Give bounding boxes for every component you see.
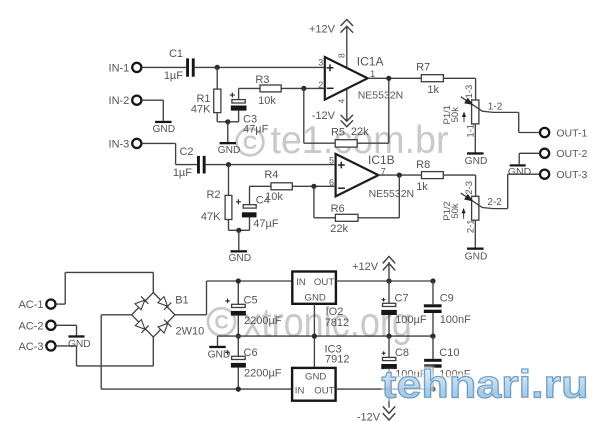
svg-text:IN: IN: [296, 277, 306, 288]
svg-text:C1: C1: [169, 48, 183, 60]
svg-text:-12V: -12V: [312, 110, 336, 122]
svg-text:GND: GND: [508, 166, 532, 178]
svg-text:100nF: 100nF: [440, 314, 471, 326]
svg-text:R6: R6: [331, 203, 345, 215]
svg-text:1-3: 1-3: [464, 85, 475, 99]
svg-text:2-2: 2-2: [487, 197, 502, 208]
svg-text:GND: GND: [152, 124, 175, 135]
svg-text:2W10: 2W10: [176, 326, 205, 338]
svg-text:IN-2: IN-2: [109, 95, 130, 107]
svg-text:AC-1: AC-1: [18, 299, 43, 311]
svg-text:GND: GND: [68, 339, 91, 350]
svg-text:7912: 7912: [325, 353, 349, 365]
svg-text:47K: 47K: [201, 211, 221, 223]
svg-text:7812: 7812: [325, 317, 349, 329]
svg-text:C10: C10: [439, 347, 459, 359]
svg-text:50k: 50k: [450, 203, 461, 219]
svg-text:GND: GND: [465, 252, 488, 263]
svg-text:50k: 50k: [450, 107, 461, 123]
svg-text:1-2: 1-2: [488, 101, 503, 112]
svg-text:2200µF: 2200µF: [244, 315, 282, 327]
svg-text:1k: 1k: [427, 84, 439, 96]
svg-text:22k: 22k: [351, 126, 369, 138]
svg-text:47µF: 47µF: [243, 123, 269, 135]
svg-text:+12V: +12V: [309, 24, 336, 36]
svg-text:R5: R5: [331, 127, 345, 139]
svg-text:NE5532N: NE5532N: [358, 90, 404, 102]
svg-text:4: 4: [336, 99, 346, 104]
svg-text:IC1A: IC1A: [357, 55, 384, 69]
svg-text:47µF: 47µF: [253, 218, 279, 230]
svg-text:2-3: 2-3: [464, 181, 475, 195]
svg-text:OUT-1: OUT-1: [556, 127, 587, 139]
svg-text:R8: R8: [416, 159, 430, 171]
svg-text:10k: 10k: [265, 191, 283, 203]
svg-text:-12V: -12V: [357, 411, 381, 422]
svg-text:OUT-3: OUT-3: [556, 169, 587, 181]
svg-text:GND: GND: [218, 145, 241, 156]
svg-text:R7: R7: [416, 62, 430, 74]
svg-text:C8: C8: [395, 347, 409, 359]
svg-text:C6: C6: [244, 347, 258, 359]
svg-text:10k: 10k: [258, 95, 276, 107]
svg-text:100µF: 100µF: [395, 314, 427, 326]
svg-text:R4: R4: [264, 169, 278, 181]
svg-text:GND: GND: [305, 292, 326, 303]
svg-text:1µF: 1µF: [173, 167, 192, 179]
svg-text:C7: C7: [395, 293, 409, 305]
svg-text:2200µF: 2200µF: [244, 368, 282, 380]
svg-text:NE5532N: NE5532N: [369, 188, 415, 200]
svg-text:1k: 1k: [416, 181, 428, 193]
svg-text:C2: C2: [179, 146, 193, 158]
svg-text:47K: 47K: [191, 103, 211, 115]
svg-text:5: 5: [329, 156, 334, 166]
svg-text:GND: GND: [228, 253, 251, 264]
svg-text:1µF: 1µF: [164, 70, 183, 82]
svg-text:R2: R2: [206, 189, 220, 201]
svg-text:IN: IN: [295, 386, 305, 397]
svg-text:8: 8: [336, 53, 346, 58]
svg-text:OUT: OUT: [314, 277, 334, 288]
svg-text:B1: B1: [175, 294, 188, 306]
svg-text:2: 2: [318, 80, 323, 90]
svg-text:IN-3: IN-3: [109, 138, 130, 150]
svg-text:IC1B: IC1B: [368, 153, 395, 167]
svg-text:IN-1: IN-1: [109, 62, 130, 74]
svg-text:C9: C9: [440, 293, 454, 305]
svg-text:AC-3: AC-3: [18, 341, 43, 353]
svg-text:OUT-2: OUT-2: [556, 148, 587, 160]
svg-text:C: C: [214, 312, 228, 334]
svg-text:C5: C5: [244, 294, 258, 306]
svg-text:OUT: OUT: [314, 386, 334, 397]
svg-text:GND: GND: [208, 350, 231, 361]
svg-text:R3: R3: [255, 74, 269, 86]
svg-text:GND: GND: [465, 156, 488, 167]
svg-text:3: 3: [318, 58, 323, 68]
svg-text:+12V: +12V: [352, 261, 379, 273]
svg-text:GND: GND: [305, 371, 326, 382]
svg-text:22k: 22k: [330, 223, 348, 235]
svg-text:tehnari.ru: tehnari.ru: [382, 364, 589, 407]
svg-text:AC-2: AC-2: [18, 320, 43, 332]
